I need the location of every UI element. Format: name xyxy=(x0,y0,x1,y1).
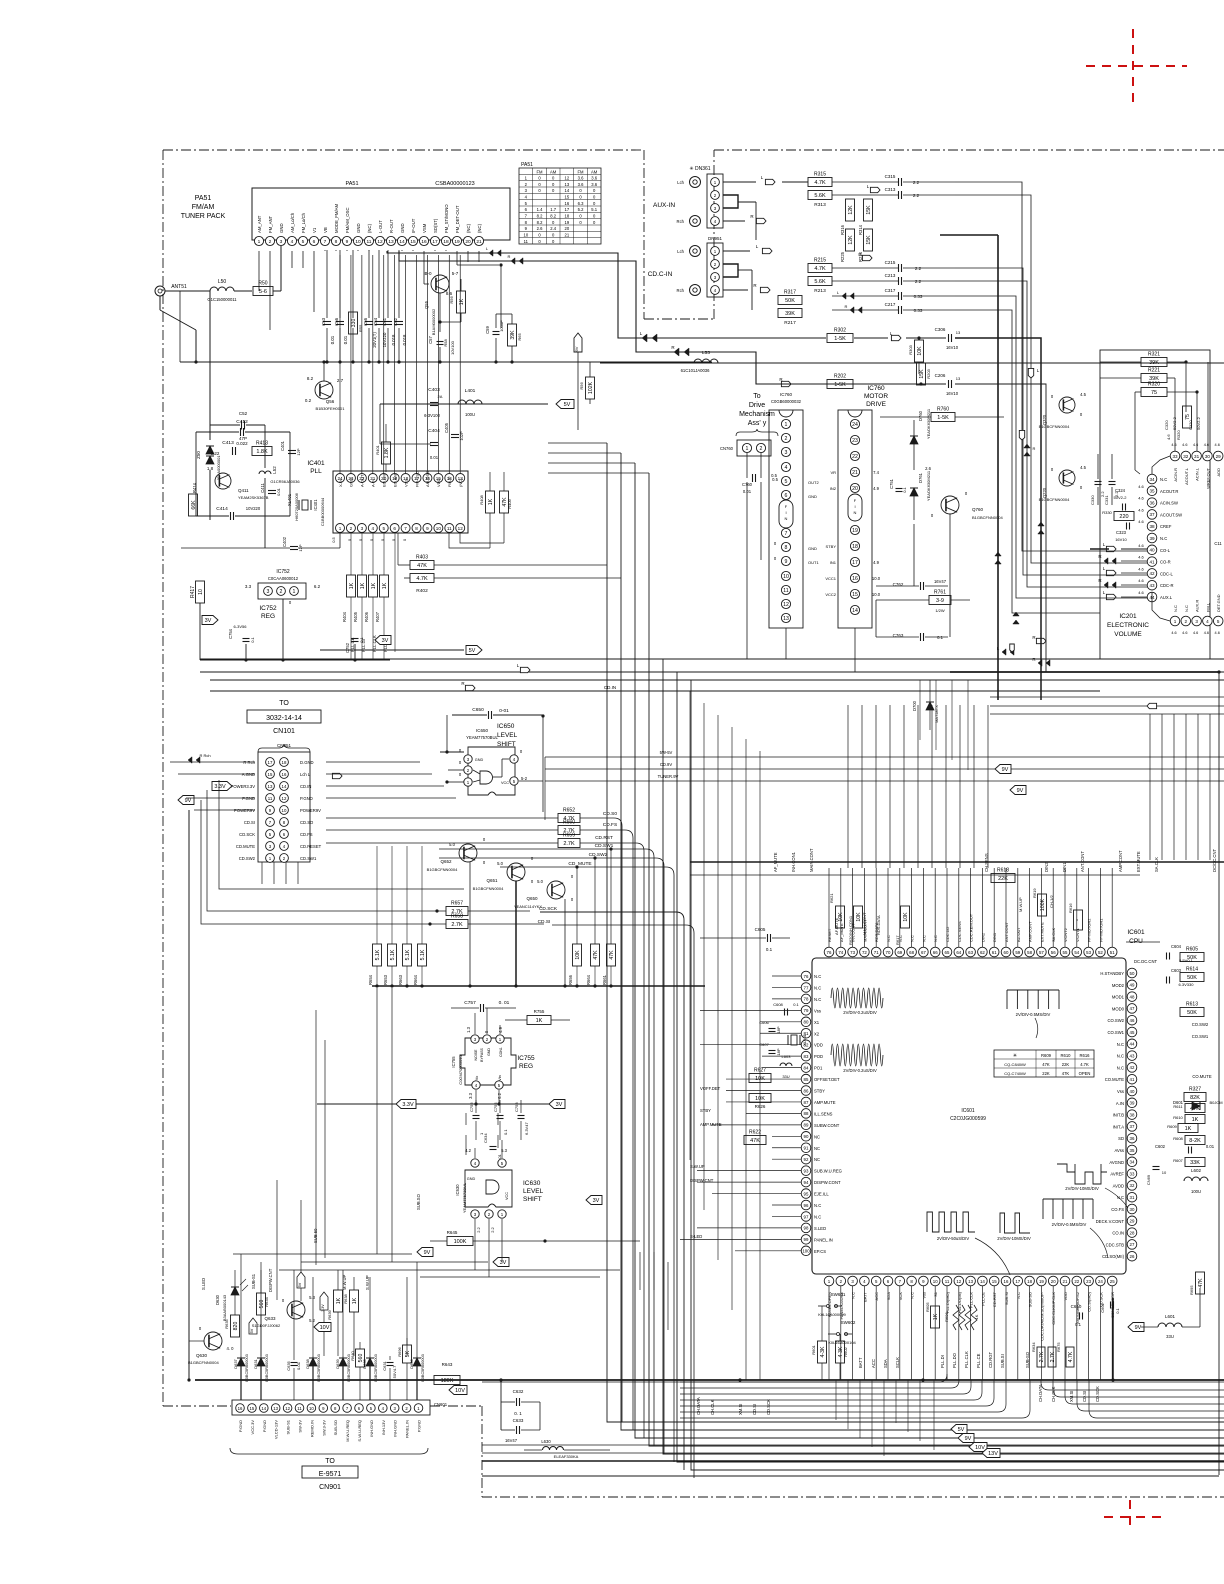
svg-text:M.W.U.REQ: M.W.U.REQ xyxy=(345,1420,350,1442)
R417 xyxy=(196,581,205,603)
C605 cap left of CPU xyxy=(767,934,769,942)
R601 R602 xyxy=(818,1341,827,1363)
svg-text:18: 18 xyxy=(852,544,858,550)
svg-text:5V: 5V xyxy=(564,402,571,408)
svg-text:18: 18 xyxy=(564,214,569,219)
svg-text:N.C: N.C xyxy=(1117,1195,1124,1200)
svg-text:1K: 1K xyxy=(360,582,366,589)
svg-text:R50: R50 xyxy=(258,281,267,287)
horizontal mid-page buses xyxy=(200,658,1224,660)
svg-text:20: 20 xyxy=(465,239,471,245)
svg-text:P.GND: P.GND xyxy=(242,796,255,801)
svg-text:1/2W: 1/2W xyxy=(935,608,945,613)
svg-text:4.6: 4.6 xyxy=(1138,578,1144,583)
svg-text:2.7K: 2.7K xyxy=(563,841,575,847)
svg-text:R605: R605 xyxy=(925,1302,930,1312)
svg-text:19: 19 xyxy=(564,220,569,225)
svg-text:10V: 10V xyxy=(975,1445,985,1451)
svg-text:15: 15 xyxy=(852,592,858,598)
Q760 xyxy=(941,496,959,514)
svg-text:B1B30FEH0001: B1B30FEH0001 xyxy=(316,406,346,411)
svg-text:VCC: VCC xyxy=(501,781,509,785)
L50 xyxy=(210,287,218,291)
svg-text:64: 64 xyxy=(956,950,961,955)
svg-text:R203: R203 xyxy=(926,368,931,378)
svg-text:0: 0 xyxy=(1080,412,1083,417)
svg-text:12: 12 xyxy=(458,526,464,531)
svg-text:2: 2 xyxy=(760,446,763,452)
svg-text:28: 28 xyxy=(1130,1230,1135,1235)
svg-text:R: R xyxy=(1032,657,1036,662)
svg-text:4.6: 4.6 xyxy=(1171,443,1176,447)
svg-text:SUB-SO: SUB-SO xyxy=(1028,1292,1033,1307)
svg-text:R613: R613 xyxy=(1186,1002,1198,1008)
svg-text:NC: NC xyxy=(814,1146,820,1151)
svg-text:N.C: N.C xyxy=(814,1214,821,1219)
svg-text:47K: 47K xyxy=(750,1138,760,1144)
svg-text:23: 23 xyxy=(852,438,858,444)
R302 C306 R303 xyxy=(827,334,853,343)
svg-text:R408: R408 xyxy=(479,494,484,504)
svg-text:MODE_FM/AM: MODE_FM/AM xyxy=(334,203,339,233)
svg-text:CPU: CPU xyxy=(1129,938,1143,945)
svg-text:AVss: AVss xyxy=(1115,1148,1124,1153)
svg-text:B1AM0000002: B1AM0000002 xyxy=(431,308,436,335)
svg-text:NC: NC xyxy=(814,1157,820,1162)
PA51 pin drop wires xyxy=(258,251,260,291)
svg-text:6.2: 6.2 xyxy=(314,584,321,589)
svg-text:B0BC5R600003: B0BC5R600003 xyxy=(245,1354,249,1381)
svg-text:D638: D638 xyxy=(305,1358,310,1368)
svg-text:SCK: SCK xyxy=(898,1292,903,1301)
svg-text:B0BC5R600003: B0BC5R600003 xyxy=(421,1354,425,1381)
svg-text:4.6: 4.6 xyxy=(1138,484,1144,489)
svg-text:35: 35 xyxy=(1130,1148,1135,1153)
svg-text:9V: 9V xyxy=(1002,767,1009,773)
svg-text:C56: C56 xyxy=(363,317,368,325)
right side vertical bundle with corner bends xyxy=(955,182,1147,551)
svg-text:ACOUT.SW: ACOUT.SW xyxy=(1160,512,1182,517)
svg-text:MOTOR: MOTOR xyxy=(864,393,888,400)
svg-text:R: R xyxy=(1098,554,1102,559)
svg-text:Rch: Rch xyxy=(677,219,685,224)
svg-text:R413: R413 xyxy=(256,441,268,447)
svg-text:3.3: 3.3 xyxy=(245,584,252,589)
svg-text:96: 96 xyxy=(804,1203,809,1208)
svg-text:AF.MUTE: AF.MUTE xyxy=(834,918,839,935)
svg-text:17: 17 xyxy=(432,239,438,245)
svg-text:8: 8 xyxy=(525,220,528,225)
svg-text:8.2: 8.2 xyxy=(537,214,543,219)
svg-text:CD.SW2: CD.SW2 xyxy=(589,852,608,858)
svg-text:21: 21 xyxy=(476,239,482,245)
IC401 right-side wires going right and down xyxy=(548,442,607,444)
svg-text:R634: R634 xyxy=(1031,1342,1036,1352)
svg-text:57: 57 xyxy=(1039,950,1044,955)
svg-text:9V: 9V xyxy=(185,798,192,804)
svg-text:2: 2 xyxy=(785,436,788,442)
svg-text:10: 10 xyxy=(1162,1170,1167,1175)
svg-text:FM.L: FM.L xyxy=(1205,602,1210,612)
svg-text:0: 0 xyxy=(520,749,523,754)
R401 xyxy=(382,442,391,464)
svg-text:MAIN.CONT: MAIN.CONT xyxy=(809,848,814,872)
svg-text:4.9: 4.9 xyxy=(873,560,879,565)
svg-text:N: N xyxy=(785,516,788,521)
svg-text:14: 14 xyxy=(852,608,858,614)
svg-text:CO.MUTE: CO.MUTE xyxy=(1192,1074,1212,1079)
svg-text:29: 29 xyxy=(1216,454,1222,459)
svg-text:D760: D760 xyxy=(918,410,923,421)
horizontals y 756-780 xyxy=(545,756,1224,758)
svg-text:R608: R608 xyxy=(1173,1136,1183,1141)
svg-text:0: 0 xyxy=(552,182,555,187)
svg-text:84: 84 xyxy=(804,1065,809,1070)
svg-text:B3AAB000143: B3AAB000143 xyxy=(222,1294,227,1321)
svg-text:1-5K: 1-5K xyxy=(834,382,846,388)
svg-text:S.W.UP: S.W.UP xyxy=(365,1275,370,1290)
svg-text:PLL.CE: PLL.CE xyxy=(976,1353,981,1368)
svg-text:37: 37 xyxy=(1130,1124,1135,1129)
CPU top pin stubs xyxy=(828,868,830,947)
svg-text:VCC: VCC xyxy=(505,1192,509,1200)
svg-text:IC752: IC752 xyxy=(259,605,277,612)
svg-text:CN601: CN601 xyxy=(434,1402,448,1407)
svg-text:8.2: 8.2 xyxy=(307,376,314,381)
svg-text:N.C: N.C xyxy=(910,1292,915,1299)
svg-text:4.6: 4.6 xyxy=(1166,434,1171,440)
svg-text:D.GND: D.GND xyxy=(300,760,314,765)
svg-text:3032-14-14: 3032-14-14 xyxy=(266,715,302,722)
svg-text:C606: C606 xyxy=(759,1020,769,1025)
svg-text:BYPASS: BYPASS xyxy=(480,1047,484,1061)
svg-text:5.6K: 5.6K xyxy=(814,279,826,285)
svg-text:0.33: 0.33 xyxy=(914,308,923,313)
CPU left pin stubs xyxy=(772,975,801,977)
svg-text:MA728TX: MA728TX xyxy=(934,705,939,723)
svg-text:220: 220 xyxy=(1119,514,1128,520)
svg-text:IC601: IC601 xyxy=(1127,929,1145,936)
svg-text:FM/AM: FM/AM xyxy=(192,204,215,211)
svg-text:N.C: N.C xyxy=(1117,1065,1124,1070)
svg-text:SW-3V: SW-3V xyxy=(298,1420,303,1433)
svg-text:FM-IF: FM-IF xyxy=(447,476,452,487)
Q220 xyxy=(1059,470,1075,486)
svg-text:C756: C756 xyxy=(469,1102,474,1112)
svg-text:0: 0 xyxy=(965,491,968,496)
svg-text:5: 5 xyxy=(785,479,788,485)
svg-text:S1: S1 xyxy=(933,1291,938,1297)
C52 xyxy=(241,421,243,430)
CN60 cap xyxy=(1153,1166,1160,1168)
svg-text:Drive: Drive xyxy=(749,402,765,409)
R315 R313 stack xyxy=(808,178,832,187)
svg-text:47K: 47K xyxy=(593,950,599,960)
IC760 bottom pin drop wires xyxy=(785,628,787,659)
CN760 pin verticals xyxy=(746,482,748,659)
svg-text:VR: VR xyxy=(830,470,836,475)
IC630 down wires xyxy=(639,1252,641,1290)
svg-text:1K: 1K xyxy=(371,582,377,589)
svg-text:CD.SCK: CD.SCK xyxy=(766,1399,771,1415)
svg-text:CD.SO: CD.SO xyxy=(300,820,314,825)
IC630 pin wires xyxy=(474,1219,476,1270)
svg-text:20: 20 xyxy=(852,486,858,492)
svg-text:C604: C604 xyxy=(1171,944,1182,949)
svg-text:L601: L601 xyxy=(1165,1314,1176,1319)
C650 cap xyxy=(488,711,490,719)
svg-text:CD.SI(MO): CD.SI(MO) xyxy=(1087,1291,1092,1311)
svg-text:SUBW.CONT: SUBW.CONT xyxy=(814,1123,840,1128)
svg-text:CO-R: CO-R xyxy=(1160,560,1171,565)
svg-text:0-01: 0-01 xyxy=(296,1361,301,1370)
svg-text:22K: 22K xyxy=(1062,1062,1070,1067)
svg-text:L: L xyxy=(1103,542,1106,547)
svg-text:0. 01: 0. 01 xyxy=(499,1000,510,1006)
svg-text:4.7K: 4.7K xyxy=(416,576,428,582)
svg-text:R755: R755 xyxy=(534,1009,545,1014)
svg-text:(NC): (NC) xyxy=(466,223,471,233)
svg-text:NC: NC xyxy=(814,1134,820,1139)
svg-text:R316: R316 xyxy=(840,224,845,235)
svg-text:61C101JA0036: 61C101JA0036 xyxy=(681,368,711,373)
svg-text:2: 2 xyxy=(350,526,353,531)
svg-text:R621: R621 xyxy=(829,893,834,903)
svg-text:R635: R635 xyxy=(224,1318,229,1328)
svg-text:22: 22 xyxy=(1074,1279,1079,1284)
svg-text:N.C: N.C xyxy=(1016,1292,1021,1299)
svg-text:R330: R330 xyxy=(1102,510,1112,515)
svg-text:R320: R320 xyxy=(1176,430,1181,440)
svg-text:STBY: STBY xyxy=(814,1089,825,1094)
svg-text:12P: 12P xyxy=(296,448,301,455)
svg-text:C215: C215 xyxy=(885,260,896,265)
svg-text:17: 17 xyxy=(268,760,273,765)
svg-text:R: R xyxy=(753,283,757,288)
svg-text:2V/DIV-10MS/DIV: 2V/DIV-10MS/DIV xyxy=(997,1236,1031,1241)
svg-text:21: 21 xyxy=(852,470,858,476)
svg-text:53: 53 xyxy=(1086,950,1091,955)
svg-text:0.1: 0.1 xyxy=(1075,1322,1081,1327)
svg-text:9: 9 xyxy=(785,559,788,565)
svg-text:2V/DIV-0.2uS/DIV: 2V/DIV-0.2uS/DIV xyxy=(843,1068,877,1073)
svg-text:DISPW.CONT: DISPW.CONT xyxy=(814,1180,841,1185)
svg-text:R606: R606 xyxy=(944,1312,949,1322)
svg-text:N.C: N.C xyxy=(910,935,915,942)
svg-text:YEAM77573BUL: YEAM77573BUL xyxy=(462,1182,467,1213)
svg-text:C62: C62 xyxy=(393,317,398,325)
svg-text:GND: GND xyxy=(808,494,817,499)
R622 L603 xyxy=(744,1136,766,1145)
svg-text:B1GBCFNN0004: B1GBCFNN0004 xyxy=(1039,424,1070,429)
svg-text:R653: R653 xyxy=(383,974,388,985)
svg-text:22: 22 xyxy=(852,454,858,460)
svg-text:50K: 50K xyxy=(1187,975,1197,981)
svg-text:0: 0 xyxy=(199,1326,202,1331)
svg-text:16V47: 16V47 xyxy=(505,1438,518,1443)
C757 cap xyxy=(480,1004,482,1012)
svg-text:0.022: 0.022 xyxy=(236,441,248,446)
svg-text:0.1: 0.1 xyxy=(902,486,907,492)
L602 xyxy=(1184,1177,1192,1181)
CD lines with corner turns xyxy=(580,818,622,1422)
svg-text:2.2: 2.2 xyxy=(913,193,920,198)
svg-text:INH.CON1: INH.CON1 xyxy=(848,915,853,935)
svg-text:42: 42 xyxy=(1130,1065,1135,1070)
svg-text:Vss: Vss xyxy=(1117,1089,1124,1094)
svg-text:CD.RST: CD.RST xyxy=(595,835,613,841)
svg-text:0: 0 xyxy=(531,879,534,884)
svg-text:SCLK: SCLK xyxy=(895,1357,900,1368)
svg-text:4.9: 4.9 xyxy=(498,1026,503,1032)
svg-text:VCC1: VCC1 xyxy=(825,576,836,581)
svg-text:R225: R225 xyxy=(840,251,845,262)
svg-text:0: 0 xyxy=(931,513,934,518)
svg-text:R645: R645 xyxy=(447,1230,458,1235)
svg-text:R639: R639 xyxy=(327,1309,332,1319)
svg-text:B1GBCFNN0004: B1GBCFNN0004 xyxy=(1039,497,1070,502)
svg-text:V.CNT2: V.CNT2 xyxy=(1063,927,1068,942)
svg-text:CO.MUTE: CO.MUTE xyxy=(1105,1077,1125,1082)
svg-text:33K: 33K xyxy=(1190,1160,1200,1166)
svg-text:R407: R407 xyxy=(375,611,380,622)
svg-text:10V: 10V xyxy=(455,1388,465,1394)
svg-text:R402: R402 xyxy=(416,588,428,594)
svg-text:R760: R760 xyxy=(937,407,949,413)
svg-text:2.2: 2.2 xyxy=(915,266,922,271)
svg-text:C757: C757 xyxy=(464,1000,476,1006)
svg-text:VLCD-13V: VLCD-13V xyxy=(274,1420,279,1439)
svg-text:76: 76 xyxy=(827,950,832,955)
svg-text:59: 59 xyxy=(1015,950,1020,955)
svg-text:R: R xyxy=(671,345,675,350)
svg-text:AUX.L: AUX.L xyxy=(1160,595,1173,600)
svg-text:R313: R313 xyxy=(814,202,826,208)
svg-text:10V100: 10V100 xyxy=(450,340,455,355)
svg-text:INH.GND: INH.GND xyxy=(393,1420,398,1437)
svg-text:3: 3 xyxy=(280,239,283,245)
svg-text:7: 7 xyxy=(785,531,788,537)
svg-text:3-9: 3-9 xyxy=(936,598,944,604)
svg-text:79: 79 xyxy=(804,1008,809,1013)
svg-text:R315: R315 xyxy=(814,172,826,178)
svg-text:11: 11 xyxy=(783,588,788,594)
svg-text:IC401: IC401 xyxy=(313,499,318,511)
svg-text:1K: 1K xyxy=(349,582,355,589)
R624 cluster bottom xyxy=(1037,1347,1045,1367)
svg-text:DC.DC.CNT: DC.DC.CNT xyxy=(1134,959,1157,964)
svg-text:N.C: N.C xyxy=(814,1203,821,1208)
svg-text:3.6: 3.6 xyxy=(578,176,584,181)
svg-text:11: 11 xyxy=(945,1279,950,1284)
svg-text:EJE.ILL: EJE.ILL xyxy=(814,1192,829,1197)
svg-text:R327: R327 xyxy=(1189,1087,1201,1093)
svg-text:MAIN.CONT: MAIN.CONT xyxy=(862,912,867,935)
svg-text:0: 0 xyxy=(552,176,555,181)
svg-text:0: 0 xyxy=(483,837,486,842)
svg-text:8-2K: 8-2K xyxy=(1189,1138,1201,1144)
svg-text:ACOUT.L: ACOUT.L xyxy=(1184,467,1189,485)
svg-text:C2C0JG000599: C2C0JG000599 xyxy=(950,1116,986,1122)
L52 xyxy=(264,425,266,468)
svg-text:R303: R303 xyxy=(908,344,913,354)
svg-text:0: 0 xyxy=(579,220,582,225)
svg-text:12: 12 xyxy=(282,796,287,801)
svg-text:VDD: VDD xyxy=(436,478,441,487)
svg-text:SUB-S1: SUB-S1 xyxy=(251,1273,256,1289)
svg-text:D636: D636 xyxy=(409,1358,414,1368)
svg-text:S.LED: S.LED xyxy=(814,1226,826,1231)
svg-text:5-6: 5-6 xyxy=(259,289,267,295)
svg-text:R610: R610 xyxy=(1060,1053,1071,1058)
svg-text:CO.FS: CO.FS xyxy=(1111,1207,1124,1212)
svg-text:S-W.U-REQ: S-W.U-REQ xyxy=(357,1420,362,1442)
svg-text:8: 8 xyxy=(785,545,788,551)
resistor cluster right R656 R664 R661 xyxy=(573,944,582,966)
svg-text:CD.SI: CD.SI xyxy=(1082,1391,1087,1402)
IC601 CPU outline xyxy=(812,958,1126,1274)
svg-text:A.IN: A.IN xyxy=(1116,1101,1124,1106)
svg-text:19: 19 xyxy=(1039,1279,1044,1284)
svg-text:R609: R609 xyxy=(1041,1053,1052,1058)
svg-text:SA.CLK: SA.CLK xyxy=(1051,927,1056,942)
antenna ANT51 xyxy=(155,286,165,296)
svg-text:YEAM77570BUL: YEAM77570BUL xyxy=(466,735,498,740)
wires IC650 area down to resistor cluster xyxy=(376,846,378,944)
ground bus y986 xyxy=(372,985,705,987)
svg-text:5V: 5V xyxy=(469,648,476,654)
svg-text:CD.S0: CD.S0 xyxy=(603,811,617,817)
svg-text:5.1: 5.1 xyxy=(591,207,597,212)
svg-text:0.22: 0.22 xyxy=(211,451,220,456)
svg-text:87: 87 xyxy=(804,1100,809,1105)
svg-text:4: 4 xyxy=(291,239,294,245)
svg-text:0: 0 xyxy=(593,201,596,206)
svg-text:Z50: Z50 xyxy=(196,451,201,459)
svg-text:L: L xyxy=(486,246,489,251)
svg-text:61: 61 xyxy=(992,950,997,955)
svg-text:R618: R618 xyxy=(997,868,1009,874)
svg-text:0: 0 xyxy=(593,220,596,225)
svg-text:C206: C206 xyxy=(935,373,946,378)
svg-text:AM: AM xyxy=(591,169,598,174)
svg-text:LEVEL: LEVEL xyxy=(523,1188,544,1195)
R408 R409 xyxy=(486,491,495,513)
svg-text:4.7K: 4.7K xyxy=(1068,1351,1074,1362)
svg-text:11: 11 xyxy=(268,796,273,801)
svg-text:R657: R657 xyxy=(451,901,463,907)
svg-text:76: 76 xyxy=(804,974,809,979)
svg-text:2: 2 xyxy=(280,589,283,595)
svg-text:S-LED: S-LED xyxy=(690,1234,702,1239)
svg-text:180K: 180K xyxy=(441,1378,454,1384)
Q320 xyxy=(1059,397,1075,413)
svg-text:4.7K: 4.7K xyxy=(814,180,826,186)
svg-text:OPEN: OPEN xyxy=(1079,1071,1091,1076)
R635 820 xyxy=(231,1315,240,1337)
svg-text:0.5: 0.5 xyxy=(772,477,778,482)
svg-text:R610: R610 xyxy=(1173,1115,1183,1120)
svg-text:2: 2 xyxy=(1185,619,1188,624)
svg-text:100: 100 xyxy=(802,1249,810,1254)
svg-text:4.6: 4.6 xyxy=(1182,443,1187,447)
svg-text:16: 16 xyxy=(1004,1279,1009,1284)
svg-text:46: 46 xyxy=(1130,1018,1135,1023)
svg-text:16V10: 16V10 xyxy=(1115,537,1127,542)
svg-text:C0GM70000040: C0GM70000040 xyxy=(458,1055,463,1085)
svg-text:4.6: 4.6 xyxy=(1138,555,1144,560)
svg-text:VOFF.DET: VOFF.DET xyxy=(700,1086,721,1091)
